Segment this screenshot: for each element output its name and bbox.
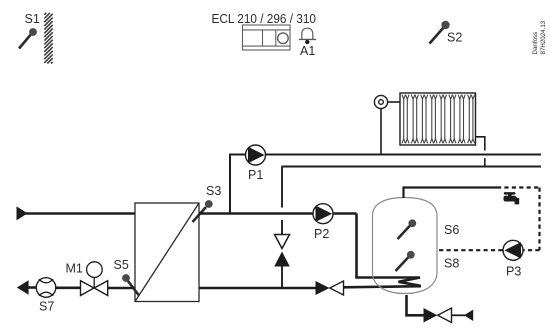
sensor S6 xyxy=(398,219,460,239)
svg-text:S1: S1 xyxy=(25,12,40,26)
wire: tank top DHW pipe xyxy=(404,188,498,199)
valve M1 (motorized) xyxy=(66,262,108,296)
wire: tank bottom cold water pipe xyxy=(407,295,424,315)
radiator thermostatic valve xyxy=(374,95,400,108)
wire: primary return pipe segments xyxy=(26,286,37,289)
wire: secondary return pipe xyxy=(199,287,316,290)
svg-text:S7: S7 xyxy=(39,300,54,314)
check valve cold water xyxy=(424,308,438,323)
svg-text:ECL 210 / 296 / 310: ECL 210 / 296 / 310 xyxy=(212,11,317,26)
wire: P1 riser xyxy=(229,154,231,215)
svg-text:S6: S6 xyxy=(444,223,459,237)
wire: coil riser xyxy=(355,214,358,278)
alarm bell A1 xyxy=(299,28,316,58)
svg-text:M1: M1 xyxy=(66,262,83,276)
wire: line2 radiator return xyxy=(282,166,542,168)
check valve (bypass): open triangle down xyxy=(275,235,290,249)
heat exchanger xyxy=(135,203,199,302)
wire: radiator return hook xyxy=(475,137,485,167)
pump P1 xyxy=(246,145,266,182)
tank coil (hairpin) xyxy=(355,278,420,286)
wire: return pipe through tank (coil bottom leg) xyxy=(343,286,421,287)
Danfoss drawing id (vertical) xyxy=(532,20,547,54)
wire: valve stem down to supply line1 xyxy=(380,109,382,154)
tap (faucet) xyxy=(503,192,519,204)
svg-text:S5: S5 xyxy=(114,258,129,272)
district heating return arrow xyxy=(17,280,29,295)
wall (hatched) xyxy=(44,13,52,64)
district heating supply arrow xyxy=(17,206,28,220)
sensor S8 xyxy=(396,251,460,271)
wire: line1 radiator supply xyxy=(230,154,541,156)
sensor S1 xyxy=(19,12,40,49)
check valve on secondary return xyxy=(316,281,330,295)
radiator xyxy=(400,93,476,145)
DHW tank xyxy=(373,198,438,294)
cold water inlet arrow xyxy=(464,310,473,321)
svg-text:S8: S8 xyxy=(444,257,459,271)
check valve (bypass): filled triangle up xyxy=(274,252,290,267)
pump P3 xyxy=(503,240,523,278)
sensor S2 xyxy=(430,21,463,45)
pump P2 xyxy=(313,204,333,241)
svg-text:A1: A1 xyxy=(300,44,315,58)
svg-text:P3: P3 xyxy=(506,265,521,279)
flow meter S7 xyxy=(36,278,56,314)
svg-text:87H2024.13: 87H2024.13 xyxy=(540,20,547,54)
wire: primary supply pipe xyxy=(25,212,135,215)
svg-text:Danfoss: Danfoss xyxy=(532,32,539,55)
controller ECL box xyxy=(243,25,291,50)
svg-text:P2: P2 xyxy=(314,227,329,241)
wire: bypass drop from line2 xyxy=(281,167,283,289)
wire: DHW recirculation dashed xyxy=(437,249,540,251)
wire: secondary supply pipe xyxy=(199,212,357,215)
wire: cold water inlet xyxy=(452,314,466,316)
svg-text:S3: S3 xyxy=(206,184,221,198)
svg-text:S2: S2 xyxy=(447,31,462,45)
svg-text:P1: P1 xyxy=(248,168,263,182)
wire: DHW dashed riser down xyxy=(538,188,540,251)
sensor S3 xyxy=(193,184,222,222)
wire: DHW dashed pipe to riser xyxy=(497,186,540,188)
sensor S5 xyxy=(114,258,140,296)
